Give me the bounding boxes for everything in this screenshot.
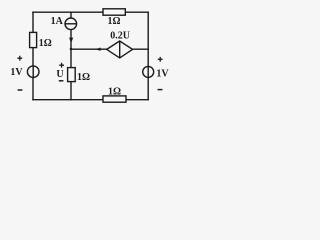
label + of V1 — [17, 56, 22, 61]
wire middle branch — [70, 12, 72, 100]
label − of U — [59, 80, 64, 82]
svg-text:1V: 1V — [156, 68, 169, 79]
svg-text:1A: 1A — [51, 16, 64, 27]
svg-text:1V: 1V — [10, 67, 23, 78]
resistor R1 1Ω (left) — [30, 32, 37, 47]
current direction arrow on middle wire — [95, 48, 100, 51]
wire middle horizontal — [71, 48, 148, 50]
dependent source 0.2U (diamond) — [107, 41, 133, 58]
svg-text:1Ω: 1Ω — [108, 16, 121, 27]
svg-text:1Ω: 1Ω — [39, 38, 52, 49]
arrow of current source (downward) — [69, 38, 73, 44]
resistor R3 1Ω (top) — [103, 9, 125, 15]
wire right — [147, 12, 149, 100]
wire bottom — [33, 99, 148, 101]
resistor R4 1Ω (bottom) — [103, 96, 126, 102]
svg-text:0.2U: 0.2U — [110, 30, 130, 41]
junction node A — [70, 48, 73, 51]
wire left — [32, 12, 34, 100]
resistor R2 1Ω (middle) — [68, 68, 76, 82]
svg-text:1Ω: 1Ω — [108, 87, 121, 98]
svg-text:1Ω: 1Ω — [77, 72, 90, 83]
svg-text:U: U — [56, 69, 63, 80]
label + of U — [59, 63, 64, 68]
voltage source V1 1V (left) — [27, 66, 39, 78]
wire top — [33, 11, 148, 13]
voltage source V2 1V (right) — [143, 66, 154, 77]
label + of V2 — [158, 57, 163, 62]
current source I1 1A — [65, 18, 77, 30]
label − of V1 — [18, 89, 23, 91]
label − of V2 — [158, 89, 163, 91]
